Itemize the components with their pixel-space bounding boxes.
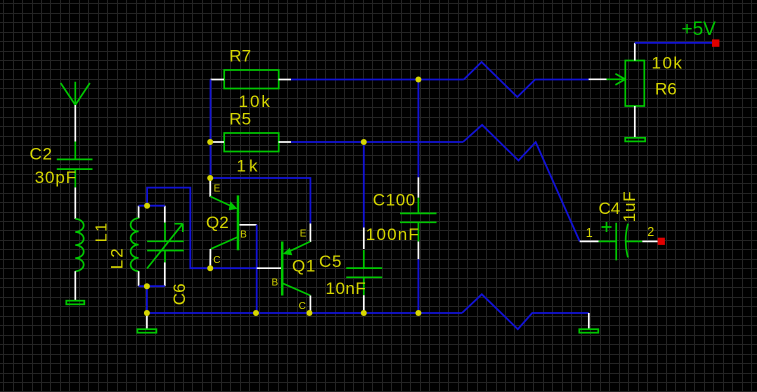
antenna	[61, 82, 90, 142]
wire R5 right	[291, 141, 463, 143]
svg-text:R6: R6	[655, 80, 677, 99]
unconnected end (+5V)	[712, 39, 719, 46]
svg-text:+5V: +5V	[682, 19, 717, 40]
junction	[415, 77, 421, 83]
resistor R7	[211, 70, 292, 89]
svg-text:E: E	[214, 184, 221, 195]
svg-text:C: C	[299, 301, 306, 312]
svg-text:Q2: Q2	[206, 213, 229, 232]
svg-text:L1: L1	[93, 221, 110, 242]
junction	[207, 175, 213, 181]
svg-text:2: 2	[647, 225, 654, 239]
svg-text:C100: C100	[373, 191, 416, 210]
svg-text:R7: R7	[229, 47, 251, 66]
junction	[144, 310, 150, 316]
svg-text:E: E	[300, 229, 307, 240]
svg-text:100nF: 100nF	[366, 225, 420, 244]
capacitor C2	[57, 142, 93, 219]
resistor R5	[211, 133, 292, 152]
svg-text:C4: C4	[599, 199, 621, 218]
transistor Q2	[210, 178, 257, 268]
svg-text:Q1: Q1	[292, 257, 316, 276]
wire tank to Q2 collector	[147, 188, 257, 269]
capacitor C5	[346, 228, 382, 314]
wire Q2 base down to bus	[256, 225, 258, 313]
inductor L2	[131, 206, 139, 287]
junction	[361, 139, 367, 145]
ground (under L1)	[66, 301, 84, 305]
svg-text:C2: C2	[30, 145, 53, 164]
svg-text:10nF: 10nF	[326, 279, 367, 298]
svg-text:1uF: 1uF	[620, 191, 639, 223]
polarized capacitor C4	[580, 222, 658, 260]
junction	[144, 203, 150, 209]
ground (tank)	[137, 313, 156, 333]
svg-text:C6: C6	[170, 283, 189, 305]
svg-text:C: C	[213, 255, 220, 266]
ground (right)	[579, 313, 598, 333]
wire C100 bottom to bus	[417, 259, 419, 313]
svg-text:1: 1	[586, 226, 593, 240]
wire tank bottom to bus	[146, 286, 148, 313]
svg-text:B: B	[240, 229, 247, 240]
junction	[144, 283, 150, 289]
junction	[306, 310, 312, 316]
svg-text:10k: 10k	[239, 92, 272, 111]
svg-text:30pF: 30pF	[35, 168, 77, 187]
unconnected end (C4 pin 2)	[658, 238, 665, 245]
svg-text:1k: 1k	[237, 157, 261, 176]
junction	[207, 265, 213, 271]
wire zigzag to C4	[463, 125, 580, 241]
wire R6 top to +5V	[635, 42, 712, 44]
transistor Q1	[257, 224, 311, 314]
wire L2/C6 top	[139, 205, 165, 207]
junction	[361, 310, 367, 316]
svg-text:C5: C5	[319, 252, 342, 271]
svg-text:L2: L2	[108, 246, 127, 269]
junction	[207, 139, 213, 145]
wire bus zigzag	[462, 294, 589, 329]
inductor L1	[75, 219, 83, 301]
wire L2/C6 bottom	[139, 285, 165, 287]
svg-text:10k: 10k	[652, 54, 684, 73]
junction	[415, 310, 421, 316]
variable capacitor C6	[147, 206, 184, 287]
ground (under R6)	[625, 138, 645, 142]
capacitor C100	[400, 177, 437, 259]
wire R7/R5 left vertical	[210, 80, 212, 179]
svg-text:R5: R5	[229, 110, 251, 129]
wire ground bus	[147, 312, 462, 314]
wire zigzag to R6	[464, 62, 589, 97]
junction	[253, 310, 259, 316]
wire Q2 emitter net	[210, 178, 310, 224]
wire R7 right	[291, 79, 464, 81]
wire R7 net down to C100	[417, 80, 419, 178]
wire R5 net down to C5	[363, 142, 365, 228]
svg-text:B: B	[272, 278, 279, 289]
potentiometer R6	[589, 43, 645, 138]
